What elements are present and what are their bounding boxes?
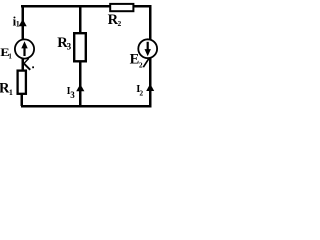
wire E1 to R1 (21, 58, 24, 70)
svg-text:1: 1 (8, 53, 12, 61)
node E1 arrow (21, 41, 27, 48)
node E2 arrow (145, 49, 151, 56)
node I1 arrow (19, 19, 27, 26)
svg-text:2: 2 (118, 19, 122, 28)
svg-text:1: 1 (9, 88, 13, 97)
resistor R3 (74, 33, 86, 61)
wire middle bottom (79, 62, 82, 107)
wire right lower (149, 58, 152, 106)
svg-text:2: 2 (139, 60, 143, 69)
svg-text:1: 1 (16, 19, 20, 28)
wire R1 to bottom (20, 94, 23, 106)
svg-text:3: 3 (70, 90, 75, 100)
wire top (21, 5, 152, 8)
svg-text:3: 3 (67, 42, 72, 52)
resistor R1 (18, 71, 26, 94)
wire middle top (79, 5, 82, 33)
node slash flare at E1 bottom (24, 58, 29, 63)
node I3 arrow (76, 84, 84, 91)
source E2 (138, 39, 157, 58)
svg-text:2: 2 (139, 89, 143, 98)
node slash at E2 bottom (143, 59, 148, 67)
node I2 arrow (146, 84, 154, 91)
wire right upper (149, 5, 152, 40)
resistor R2 (110, 4, 133, 11)
svg-text:E: E (130, 52, 140, 68)
source E1 (15, 39, 34, 58)
wire bottom (21, 105, 152, 108)
wire left upper (21, 5, 24, 40)
